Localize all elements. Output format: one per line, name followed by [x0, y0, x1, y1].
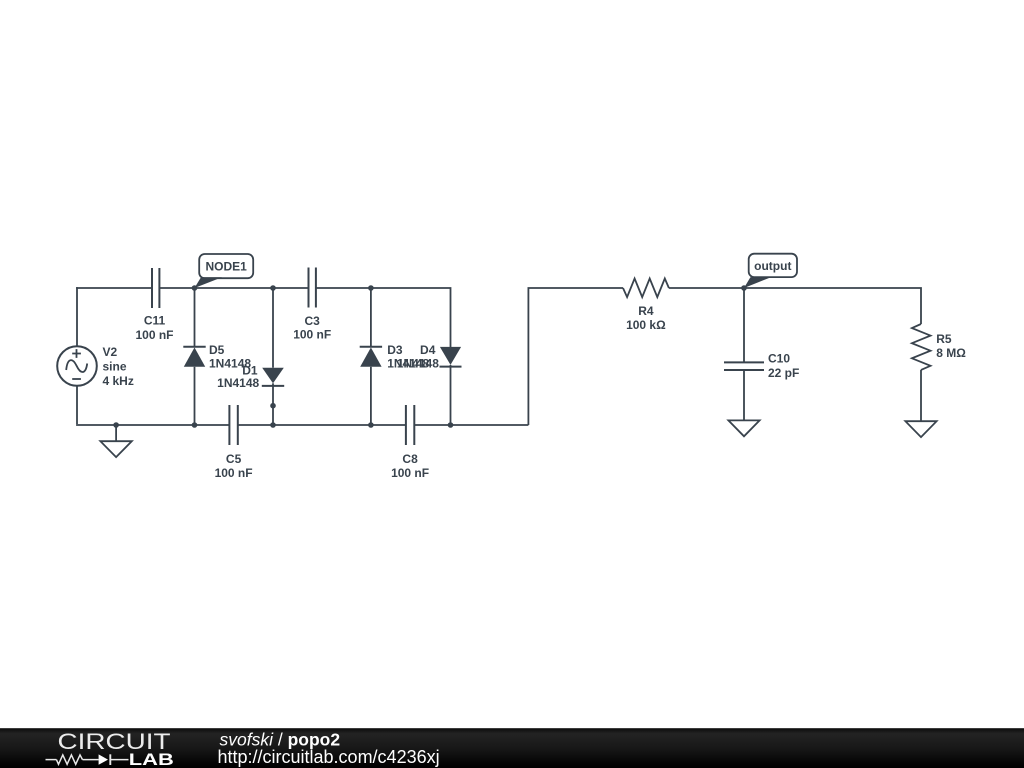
resistor R5 — [912, 324, 931, 370]
svg-text:C8: C8 — [402, 452, 418, 466]
svg-text:4 kHz: 4 kHz — [103, 374, 134, 388]
node NODE1 callout — [192, 254, 254, 291]
wire top rail segment B — [159, 287, 308, 289]
wire top rail segment A — [76, 287, 152, 289]
svg-text:http://circuitlab.com/c4236xj: http://circuitlab.com/c4236xj — [218, 747, 440, 767]
CircuitLab logo doodle diode — [99, 754, 108, 764]
svg-text:sine: sine — [103, 359, 127, 373]
svg-text:D4: D4 — [420, 343, 436, 357]
wire left vertical top (V2 to top rail) — [76, 288, 79, 346]
svg-text:R4: R4 — [638, 304, 654, 318]
diode D5 — [183, 288, 205, 425]
wire top rail segment C — [316, 288, 451, 347]
svg-text:100 nF: 100 nF — [215, 466, 253, 480]
capacitor C3 — [309, 268, 316, 308]
svg-text:C3: C3 — [305, 314, 321, 328]
svg-text:C11: C11 — [144, 314, 166, 328]
svg-text:LAB: LAB — [129, 751, 174, 768]
capacitor C8 — [406, 405, 414, 445]
capacitor C5 — [229, 405, 237, 445]
wire left vertical bottom (V2 to bottom rail) — [76, 386, 78, 424]
svg-text:R5: R5 — [936, 332, 952, 346]
capacitor C11 — [152, 268, 159, 308]
svg-text:output: output — [754, 259, 791, 273]
wire right link up and across — [528, 288, 623, 425]
node junction dots bottom rail — [113, 422, 119, 428]
ground below C10 — [728, 420, 759, 436]
capacitor C10 — [724, 362, 764, 420]
svg-text:1N4148: 1N4148 — [397, 356, 439, 370]
wire R5 bottom lead — [920, 370, 922, 421]
node junction dots top rail — [270, 285, 276, 291]
svg-text:D3: D3 — [387, 343, 403, 357]
wire output branch — [743, 288, 745, 362]
svg-text:100 nF: 100 nF — [391, 466, 429, 480]
CircuitLab logo doodle wire — [46, 754, 129, 765]
ground below R5 — [905, 421, 936, 437]
wire ground stem near V2 — [115, 425, 117, 441]
svg-text:D5: D5 — [209, 343, 225, 357]
junction dot on D1 lower wire — [270, 403, 276, 409]
svg-text:C5: C5 — [226, 452, 242, 466]
diode D3 — [360, 288, 382, 425]
diode D4 — [440, 347, 462, 425]
voltage source V2 — [57, 346, 97, 386]
wire bottom rail segment A — [76, 423, 229, 426]
svg-text:100 nF: 100 nF — [293, 328, 331, 342]
diode D1 — [262, 288, 284, 425]
svg-text:1N4148: 1N4148 — [217, 376, 259, 390]
svg-text:C10: C10 — [768, 352, 790, 366]
svg-text:V2: V2 — [103, 345, 118, 359]
resistor R4 — [623, 279, 669, 298]
wire rail to R5 — [669, 288, 921, 324]
wire bottom rail segment C — [414, 424, 528, 426]
ground near V2 — [100, 441, 131, 457]
svg-text:NODE1: NODE1 — [206, 259, 248, 273]
node output callout — [741, 254, 797, 291]
svg-text:22 pF: 22 pF — [768, 366, 799, 380]
svg-text:100 kΩ: 100 kΩ — [626, 318, 666, 332]
svg-text:100 nF: 100 nF — [135, 328, 173, 342]
wire bottom rail segment B — [238, 424, 406, 426]
svg-text:8 MΩ: 8 MΩ — [936, 346, 966, 360]
